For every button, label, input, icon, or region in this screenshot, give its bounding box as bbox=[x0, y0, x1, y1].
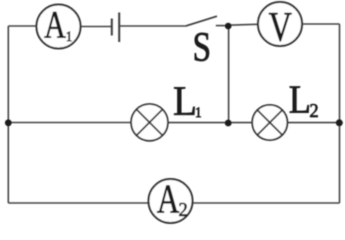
battery cell bbox=[112, 13, 119, 43]
wire voltmeter to right corner bbox=[302, 23, 340, 25]
node junction dot middle bbox=[225, 120, 232, 127]
wire bottom bbox=[8, 202, 339, 204]
lamp L1 bbox=[131, 104, 168, 141]
wire node S down to middle node bbox=[228, 26, 230, 123]
wire L1 to middle node bbox=[168, 122, 253, 124]
wire right vertical bbox=[339, 24, 341, 203]
wire node to voltmeter bbox=[229, 23, 258, 26]
switch S blade bbox=[186, 16, 217, 26]
voltmeter V bbox=[258, 2, 302, 46]
wire left vertical bbox=[7, 26, 9, 203]
ammeter A2 bbox=[149, 179, 193, 223]
wire L2 to right bbox=[287, 122, 339, 124]
wire A1 to battery bbox=[81, 26, 112, 28]
lamp L2 bbox=[252, 105, 287, 140]
node junction dot right middle bbox=[336, 119, 343, 126]
wire top left bbox=[8, 25, 36, 27]
wire battery to switch bbox=[119, 25, 186, 27]
label L2 bbox=[290, 87, 318, 117]
label L1 bbox=[174, 87, 201, 117]
node junction dot left middle bbox=[5, 119, 12, 126]
label S bbox=[195, 33, 209, 61]
wire switch contact to node bbox=[216, 25, 229, 27]
wire middle left bbox=[8, 122, 131, 124]
node junction dot at switch bbox=[225, 23, 232, 30]
ammeter A1 bbox=[37, 5, 81, 49]
